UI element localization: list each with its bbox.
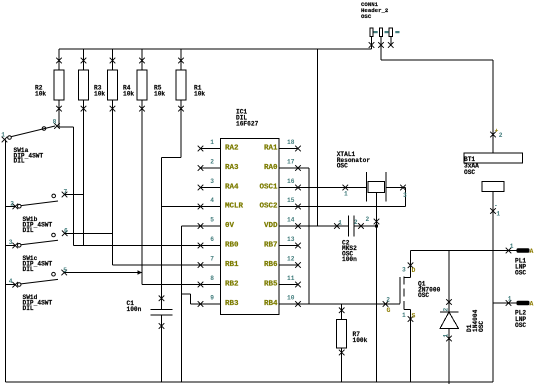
wire PL2 branch line xyxy=(493,302,517,304)
capacitor C1 xyxy=(151,309,173,315)
resistor R3 xyxy=(79,70,89,100)
junction arrow SW1d-R5 xyxy=(138,270,143,274)
node C2 pin2 X xyxy=(358,223,364,229)
resistor R4 xyxy=(108,70,118,100)
wire R4 bottom column to pin7 line xyxy=(112,100,114,265)
svg-text:14: 14 xyxy=(287,217,295,224)
wire RB2 pin8 line xyxy=(142,284,201,286)
svg-text:100k: 100k xyxy=(353,337,368,344)
wire R3 top xyxy=(83,49,85,70)
svg-text:17: 17 xyxy=(287,159,295,166)
svg-text:100n: 100n xyxy=(342,256,357,263)
svg-text:OSC: OSC xyxy=(515,270,526,277)
IC1 right pin X nodes xyxy=(295,146,301,152)
wire ground bottom bus xyxy=(6,381,494,383)
wire OSC1 pin16 to resonator xyxy=(298,187,367,189)
wire 0V pin5 to ground riser xyxy=(182,226,201,382)
svg-text:9: 9 xyxy=(210,295,214,302)
svg-text:1: 1 xyxy=(508,296,512,303)
svg-text:10k: 10k xyxy=(35,90,46,97)
svg-text:OSC: OSC xyxy=(361,13,372,20)
svg-text:MCLR: MCLR xyxy=(225,202,244,210)
wire VDD riser to IC pin14 xyxy=(317,49,319,226)
svg-text:RB4: RB4 xyxy=(264,300,278,308)
svg-text:8: 8 xyxy=(210,275,214,282)
svg-text:OSC: OSC xyxy=(478,321,485,332)
IC1 left pin X nodes xyxy=(198,146,204,152)
pin number 1 CONN1 xyxy=(374,31,378,33)
svg-text:RB2: RB2 xyxy=(225,280,239,288)
wire R2 top xyxy=(58,49,60,70)
svg-text:16: 16 xyxy=(287,178,295,185)
svg-text:100n: 100n xyxy=(127,306,142,313)
svg-text:7: 7 xyxy=(210,256,214,263)
svg-text:10: 10 xyxy=(287,295,295,302)
resistor R2 xyxy=(54,70,64,100)
wire R1 top xyxy=(180,49,182,70)
svg-text:10k: 10k xyxy=(154,90,165,97)
svg-text:D: D xyxy=(412,267,416,274)
wire R5 top xyxy=(141,49,143,70)
node R5 top X xyxy=(139,58,145,64)
svg-text:3: 3 xyxy=(402,267,406,274)
svg-text:OSC: OSC xyxy=(418,292,429,299)
svg-text:1: 1 xyxy=(344,191,348,198)
svg-text:16F627: 16F627 xyxy=(236,121,259,128)
svg-text:10k: 10k xyxy=(94,90,105,97)
svg-text:1: 1 xyxy=(402,312,406,319)
svg-text:1: 1 xyxy=(443,334,450,338)
IC1 right pin leads xyxy=(279,149,298,305)
svg-text:2: 2 xyxy=(499,132,503,139)
wire OSC2 pin15 to resonator right xyxy=(298,188,406,207)
pin number 2 CONN1 xyxy=(385,31,389,33)
node XTAL1 pin3 X xyxy=(400,185,406,191)
wire XTAL1 center tap to ground bus xyxy=(376,192,378,382)
node Q1 source X xyxy=(408,316,414,322)
pin number 3 CONN1 xyxy=(395,31,399,33)
svg-text:5: 5 xyxy=(210,217,214,224)
node R1 bottom X xyxy=(178,106,184,112)
wire SW1b to R3 column xyxy=(65,194,84,196)
svg-text:8: 8 xyxy=(53,119,57,126)
svg-text:2: 2 xyxy=(354,219,358,226)
svg-text:2: 2 xyxy=(210,159,214,166)
svg-text:15: 15 xyxy=(287,197,295,204)
wire C2 right to XTAL center column xyxy=(354,225,377,227)
svg-text:OSC1: OSC1 xyxy=(259,183,278,191)
resistor R5 xyxy=(137,70,147,100)
svg-text:1: 1 xyxy=(510,243,514,250)
resistor R1 xyxy=(176,70,186,100)
wire MCLR column to C1 xyxy=(161,158,163,310)
wire VDD pin14 to C2 xyxy=(298,225,348,227)
op IC1 body xyxy=(221,138,280,314)
diode D1 xyxy=(448,251,450,313)
node C2 pin1 X xyxy=(334,223,340,229)
wire R5 bottom column to pin8 line xyxy=(141,100,143,285)
plug PL1 xyxy=(506,248,512,254)
svg-text:RB6: RB6 xyxy=(264,261,278,269)
wire CONN1 pin3 lead xyxy=(390,37,392,47)
svg-text:RA0: RA0 xyxy=(264,164,278,172)
svg-text:RB5: RB5 xyxy=(264,280,278,288)
svg-text:11: 11 xyxy=(287,275,295,282)
node R1 top X xyxy=(178,58,184,64)
capacitor C2 xyxy=(348,216,354,237)
svg-text:S: S xyxy=(412,313,416,320)
svg-text:10k: 10k xyxy=(194,90,205,97)
junction C2 to XTAL center column xyxy=(375,225,378,228)
svg-text:OSC: OSC xyxy=(515,322,526,329)
svg-text:18: 18 xyxy=(287,139,295,146)
svg-text:1: 1 xyxy=(210,139,214,146)
switch SW1a xyxy=(8,136,12,140)
node R4 top X xyxy=(110,58,116,64)
wire RB4 pin10 line to gate xyxy=(298,303,400,305)
svg-text:4: 4 xyxy=(210,197,214,204)
switch SW1b xyxy=(6,205,16,207)
wire RB0 pin6 line xyxy=(74,245,201,247)
svg-text:1: 1 xyxy=(496,211,500,218)
wire CONN1 pin2 lead and feed to battery xyxy=(381,37,493,61)
svg-text:6: 6 xyxy=(210,236,214,243)
svg-text:-: - xyxy=(494,202,498,209)
wire ground left riser xyxy=(5,140,7,383)
svg-text:DIL: DIL xyxy=(23,266,34,273)
wire drain line to PL1 xyxy=(411,250,517,252)
node R5 bottom X xyxy=(139,106,145,112)
wire MCLR pin4 branch xyxy=(162,206,201,208)
node R3 top X xyxy=(81,58,87,64)
svg-text:DIL: DIL xyxy=(14,158,25,165)
svg-text:2: 2 xyxy=(366,216,370,223)
svg-text:OSC: OSC xyxy=(337,162,348,169)
svg-text:3: 3 xyxy=(210,178,214,185)
svg-text:RA2: RA2 xyxy=(225,144,239,152)
IC1 left pin leads xyxy=(201,149,221,305)
node Q1 gate X xyxy=(383,301,389,307)
svg-text:DIL: DIL xyxy=(23,227,34,234)
svg-text:RA1: RA1 xyxy=(264,144,278,152)
wire SW1d to R5 column xyxy=(64,272,142,274)
node R3 bottom X xyxy=(81,106,87,112)
svg-text:RA4: RA4 xyxy=(225,183,239,191)
transistor Q1 xyxy=(399,277,401,304)
switch SW1d xyxy=(6,284,16,286)
svg-text:10k: 10k xyxy=(123,90,134,97)
svg-text:3: 3 xyxy=(403,192,407,199)
node R2 bottom X xyxy=(56,106,62,112)
svg-text:2: 2 xyxy=(10,200,14,207)
wire SW1a riser to pin6 line xyxy=(73,127,75,246)
node Q1 drain X xyxy=(408,263,414,269)
svg-text:12: 12 xyxy=(287,256,295,263)
svg-text:13: 13 xyxy=(287,236,295,243)
wire C1 bottom to ground bus xyxy=(161,315,163,382)
wire RB1 pin7 line xyxy=(113,264,201,266)
label D1 rotated xyxy=(466,309,485,332)
svg-text:3: 3 xyxy=(9,239,13,246)
wire R4 top xyxy=(112,49,114,70)
wire R2 bottom to SW1a node xyxy=(58,100,74,127)
svg-text:VDD: VDD xyxy=(264,222,278,230)
svg-text:A: A xyxy=(530,248,534,255)
svg-text:OSC: OSC xyxy=(464,169,475,176)
node R4 bottom X xyxy=(110,106,116,112)
wire RB3 pin9 dogleg to 0V riser xyxy=(182,294,201,304)
connector CONN1 xyxy=(370,28,373,37)
resonator XTAL1 xyxy=(367,172,387,202)
plug PL2 xyxy=(506,300,512,306)
svg-text:1: 1 xyxy=(1,131,5,138)
wire RA0 pin17 riser to RB4 line xyxy=(298,168,309,304)
node XTAL1 pin1 X xyxy=(343,185,349,191)
svg-text:1: 1 xyxy=(338,220,342,227)
svg-text:0V: 0V xyxy=(225,222,235,230)
node C1 top X xyxy=(159,296,165,302)
wire CONN1 pin1 lead xyxy=(371,37,373,50)
node XTAL1 pin2 X xyxy=(374,219,380,225)
svg-text:OSC2: OSC2 xyxy=(259,202,278,210)
svg-text:2: 2 xyxy=(386,296,390,303)
node R2 top X xyxy=(56,58,62,64)
node C1 bottom X xyxy=(159,323,165,329)
svg-text:RA3: RA3 xyxy=(225,164,239,172)
resistor R7 xyxy=(341,304,343,320)
svg-text:RB1: RB1 xyxy=(225,261,239,269)
svg-text:4: 4 xyxy=(9,278,13,285)
svg-text:2: 2 xyxy=(443,308,450,312)
battery BT1 xyxy=(492,60,494,153)
wire VDD top bus xyxy=(59,48,372,50)
svg-text:A: A xyxy=(530,301,534,308)
svg-text:RB0: RB0 xyxy=(225,241,239,249)
svg-text:RB3: RB3 xyxy=(225,300,239,308)
wire R3 bottom column to pin6 line xyxy=(83,100,85,246)
svg-text:DIL: DIL xyxy=(23,305,34,312)
svg-text:RB7: RB7 xyxy=(264,241,278,249)
wire SW1c to R4 column xyxy=(65,232,113,234)
wire R1 bottom jog to MCLR column xyxy=(162,100,182,158)
switch SW1c xyxy=(6,245,16,247)
svg-text:G: G xyxy=(387,307,391,314)
